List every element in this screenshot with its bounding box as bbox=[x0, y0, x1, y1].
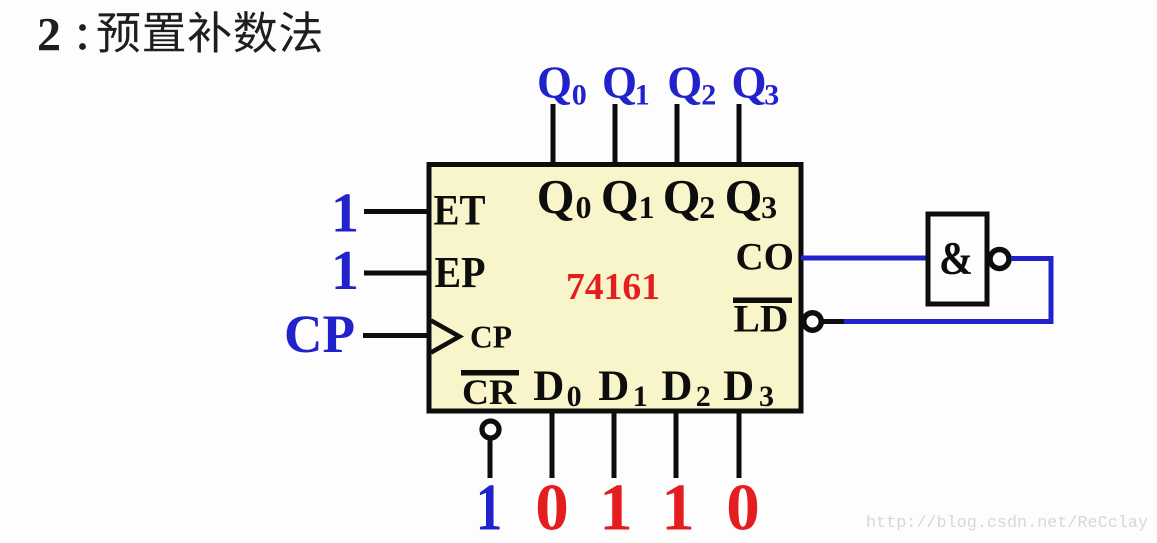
svg-text:Q: Q bbox=[663, 171, 701, 224]
svg-text:LD: LD bbox=[734, 297, 789, 341]
svg-text:1: 1 bbox=[661, 471, 695, 543]
wire Q3 output bbox=[737, 104, 742, 165]
svg-text:ET: ET bbox=[434, 188, 486, 235]
svg-text:D: D bbox=[533, 363, 564, 410]
LD overline bbox=[733, 298, 792, 304]
CR bubble bbox=[482, 421, 499, 438]
svg-text:0: 0 bbox=[576, 189, 592, 225]
wire Q2 output bbox=[675, 104, 680, 165]
svg-text:CP: CP bbox=[284, 304, 355, 364]
svg-text:1: 1 bbox=[331, 183, 359, 245]
svg-text:3: 3 bbox=[761, 189, 777, 225]
svg-text:1: 1 bbox=[639, 189, 655, 225]
svg-text:2: 2 bbox=[699, 189, 715, 225]
svg-text:&: & bbox=[939, 233, 973, 285]
svg-text:1: 1 bbox=[599, 471, 633, 543]
svg-text:Q: Q bbox=[537, 171, 575, 224]
CR overline bbox=[461, 370, 519, 376]
wire Q1 output bbox=[613, 104, 618, 165]
svg-text:Q: Q bbox=[732, 58, 767, 108]
clock triangle bbox=[431, 321, 460, 353]
wire CP input bbox=[363, 333, 429, 338]
wire ET input bbox=[364, 209, 429, 214]
title: 2：预置补数法 bbox=[37, 9, 321, 62]
svg-text:0: 0 bbox=[567, 380, 582, 413]
wire Q0 output bbox=[551, 104, 556, 165]
wire D3 input bbox=[737, 412, 742, 478]
wire EP input bbox=[364, 271, 429, 276]
wire CO to NAND bbox=[801, 256, 928, 261]
wire NAND output feedback bbox=[842, 259, 1051, 322]
wire D1 input bbox=[612, 412, 617, 478]
svg-text:Q: Q bbox=[667, 58, 702, 108]
svg-text:1: 1 bbox=[331, 240, 359, 302]
svg-text:3: 3 bbox=[759, 380, 774, 413]
nand gate U1 body bbox=[928, 214, 987, 304]
svg-text:D: D bbox=[723, 363, 754, 410]
svg-text:0: 0 bbox=[726, 471, 760, 543]
svg-text:2: 2 bbox=[37, 9, 61, 62]
wire CR input bbox=[488, 440, 493, 478]
svg-text:http://blog.csdn.net/ReCclay: http://blog.csdn.net/ReCclay bbox=[866, 514, 1148, 533]
svg-text:Q: Q bbox=[537, 58, 572, 108]
svg-text:D: D bbox=[598, 363, 629, 410]
svg-text:1: 1 bbox=[633, 380, 648, 413]
wire D2 input bbox=[674, 412, 679, 478]
wire D0 input bbox=[550, 412, 555, 478]
svg-text:D: D bbox=[661, 363, 692, 410]
svg-text:CR: CR bbox=[462, 372, 517, 412]
svg-text:0: 0 bbox=[535, 471, 569, 543]
svg-text:Q: Q bbox=[601, 171, 639, 224]
svg-text:CO: CO bbox=[736, 236, 795, 279]
wire black stub to LD bubble bbox=[823, 319, 844, 324]
svg-text:1: 1 bbox=[476, 471, 503, 543]
nand output bubble bbox=[990, 250, 1009, 269]
svg-text:Q: Q bbox=[725, 171, 763, 224]
svg-text:CP: CP bbox=[470, 320, 512, 355]
chip body 74161 bbox=[429, 165, 801, 412]
LD bubble bbox=[804, 313, 822, 331]
svg-text:2: 2 bbox=[696, 380, 711, 413]
svg-text:Q: Q bbox=[602, 58, 637, 108]
svg-text:74161: 74161 bbox=[566, 266, 660, 308]
svg-text:EP: EP bbox=[435, 248, 486, 297]
